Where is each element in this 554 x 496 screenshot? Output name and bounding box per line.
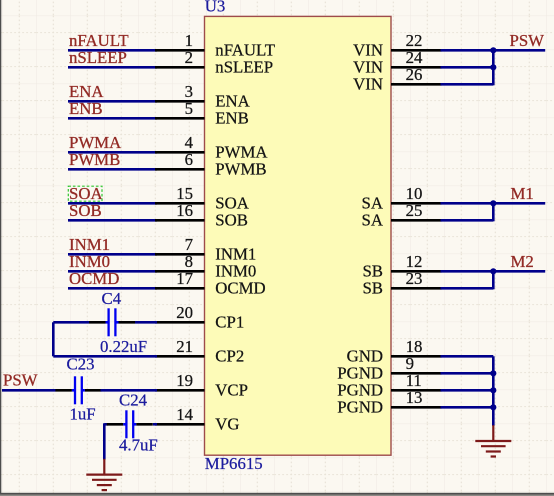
net label PWMA — [69, 133, 121, 152]
net label ENB — [69, 99, 103, 118]
svg-text:PSW: PSW — [510, 31, 545, 50]
svg-text:0.22uF: 0.22uF — [100, 337, 147, 356]
junction dot pin24 — [490, 64, 496, 70]
pin 2 (nSLEEP) — [155, 48, 273, 77]
svg-text:SOB: SOB — [215, 211, 248, 230]
wire net SOA — [68, 202, 157, 205]
pin 19 (VCP) — [155, 371, 248, 400]
pin 12 (SB) — [362, 252, 441, 281]
wire VIN pin22 to PSW — [441, 49, 546, 52]
svg-text:16: 16 — [176, 201, 193, 220]
pin 24 (VIN) — [353, 48, 441, 77]
wire corner to C24 — [104, 423, 108, 426]
wire CP1 to C4 — [53, 321, 157, 324]
wire net INM0 — [68, 270, 157, 273]
capacitor C23 — [55, 376, 101, 404]
svg-text:1uF: 1uF — [70, 405, 96, 424]
svg-text:C23: C23 — [67, 355, 95, 374]
svg-text:PWMB: PWMB — [215, 160, 266, 179]
svg-text:ENB: ENB — [69, 99, 103, 118]
pin 26 (VIN) — [353, 65, 441, 94]
net label ENA — [69, 82, 104, 101]
svg-text:25: 25 — [406, 201, 423, 220]
part number MP6615 — [205, 454, 263, 473]
svg-text:SOB: SOB — [69, 201, 102, 220]
svg-text:M2: M2 — [511, 252, 534, 271]
net label INM1 — [69, 235, 110, 254]
junction dot pin9 — [490, 370, 496, 376]
svg-text:U3: U3 — [205, 0, 226, 16]
wire VIN pin26 — [441, 83, 494, 86]
designator U3 — [205, 0, 226, 16]
svg-text:2: 2 — [185, 48, 193, 67]
value 1uF — [70, 405, 96, 424]
designator C4 — [102, 289, 122, 308]
wire VIN pin24 — [441, 66, 494, 69]
svg-text:OCMD: OCMD — [215, 279, 265, 298]
pin 1 (nFAULT) — [155, 31, 275, 60]
svg-text:nSLEEP: nSLEEP — [69, 48, 127, 67]
svg-text:CP1: CP1 — [215, 313, 244, 332]
net label nSLEEP — [69, 48, 127, 67]
svg-text:ENB: ENB — [215, 109, 249, 128]
value 0.22uF — [100, 337, 147, 356]
net label PSW (left) — [3, 371, 38, 390]
designator C23 — [67, 355, 95, 374]
junction dot pin12 — [490, 268, 496, 274]
wire GND vertical bus — [492, 356, 495, 426]
pin 18 (GND) — [347, 337, 442, 366]
junction dot pin10 — [490, 200, 496, 206]
wire net PWMA — [68, 151, 157, 154]
wire SB pin23 — [441, 287, 494, 290]
wire SB vertical — [492, 271, 495, 289]
svg-text:21: 21 — [176, 337, 193, 356]
wire GND pin18 — [441, 355, 494, 358]
ground symbol (right) — [475, 425, 511, 456]
pin 5 (ENB) — [155, 99, 249, 128]
net label M2 — [511, 252, 534, 271]
capacitor C24 — [107, 410, 153, 438]
pin 22 (VIN) — [353, 31, 441, 60]
sheet border bottom edge — [0, 493, 554, 496]
svg-text:PGND: PGND — [337, 398, 383, 417]
pin 14 (VG) — [155, 405, 240, 434]
junction dot pin22 — [490, 47, 496, 53]
net label PWMB — [69, 150, 120, 169]
net label M1 — [511, 184, 534, 203]
svg-text:13: 13 — [406, 388, 423, 407]
svg-text:M1: M1 — [511, 184, 534, 203]
value 4.7uF — [119, 436, 158, 455]
svg-text:26: 26 — [406, 65, 423, 84]
wire net nFAULT — [68, 49, 157, 52]
wire C4 loop vertical — [52, 322, 55, 356]
pin 16 (SOB) — [155, 201, 248, 230]
net label INM0 — [69, 252, 110, 271]
sheet border left edge — [0, 0, 1, 496]
wire net ENB — [68, 117, 157, 120]
wire SA pin25 — [441, 219, 494, 222]
wire PGND pin11 — [441, 389, 494, 392]
svg-text:6: 6 — [185, 150, 193, 169]
wire PSW to C23 — [2, 389, 56, 392]
svg-text:17: 17 — [176, 269, 193, 288]
wire net INM1 — [68, 253, 157, 256]
pin 20 (CP1) — [155, 303, 244, 332]
svg-text:23: 23 — [406, 269, 423, 288]
pin 23 (SB) — [362, 269, 441, 298]
wire VIN vertical bus — [492, 50, 495, 85]
pin 17 (OCMD) — [155, 269, 266, 298]
pin 4 (PWMA) — [155, 133, 268, 162]
capacitor C4 — [89, 308, 135, 336]
pin 13 (PGND) — [337, 388, 441, 417]
pin 25 (SA) — [362, 201, 442, 230]
pin 7 (INM1) — [155, 235, 256, 264]
svg-text:SB: SB — [362, 279, 383, 298]
net label SOB — [69, 201, 102, 220]
svg-text:VIN: VIN — [353, 75, 383, 94]
wire net OCMD — [68, 287, 157, 290]
selection box around SOA label — [68, 186, 102, 201]
ground symbol (left) — [86, 459, 122, 490]
svg-text:4.7uF: 4.7uF — [119, 436, 158, 455]
svg-text:20: 20 — [176, 303, 193, 322]
svg-text:14: 14 — [176, 405, 193, 424]
net label SOA — [69, 184, 103, 203]
svg-text:C4: C4 — [102, 289, 122, 308]
pin 9 (PGND) — [337, 354, 441, 383]
svg-text:SA: SA — [362, 211, 383, 230]
pin 15 (SOA) — [155, 184, 249, 213]
wire net ENA — [68, 100, 157, 103]
svg-text:CP2: CP2 — [215, 347, 244, 366]
svg-text:VG: VG — [215, 415, 239, 434]
svg-text:PWMB: PWMB — [69, 150, 120, 169]
IC U3 body — [205, 16, 392, 455]
svg-text:MP6615: MP6615 — [205, 454, 263, 473]
wire net nSLEEP — [68, 66, 157, 69]
svg-text:19: 19 — [176, 371, 193, 390]
wire SA pin10 to M1 — [441, 202, 546, 205]
pin 21 (CP2) — [155, 337, 244, 366]
svg-text:C24: C24 — [119, 391, 148, 410]
wire C23 to VCP pin — [101, 389, 158, 392]
net label nFAULT — [69, 31, 129, 50]
wire PGND pin9 — [441, 372, 494, 375]
svg-text:nSLEEP: nSLEEP — [215, 58, 273, 77]
junction dot pin11 — [490, 387, 496, 393]
wire net SOB — [68, 219, 157, 222]
designator C24 — [119, 391, 148, 410]
svg-text:PSW: PSW — [3, 371, 38, 390]
wire CP2 — [53, 355, 157, 358]
svg-text:VCP: VCP — [215, 381, 248, 400]
pin 3 (ENA) — [155, 82, 250, 111]
wire SA vertical — [492, 203, 495, 221]
wire SB pin12 to M2 — [441, 270, 546, 273]
pin 10 (SA) — [362, 184, 442, 213]
wire PGND pin13 — [441, 406, 494, 409]
wire down to ground (left) — [103, 423, 106, 459]
svg-text:OCMD: OCMD — [69, 269, 119, 288]
pin 6 (PWMB) — [155, 150, 267, 179]
wire net PWMB — [68, 168, 157, 171]
pin 11 (PGND) — [337, 371, 441, 400]
net label PSW (right) — [510, 31, 545, 50]
wire C24 to VG pin — [153, 423, 157, 426]
junction dot pin13 — [490, 404, 496, 410]
pin 8 (INM0) — [155, 252, 256, 281]
svg-text:5: 5 — [185, 99, 193, 118]
net label OCMD — [69, 269, 119, 288]
